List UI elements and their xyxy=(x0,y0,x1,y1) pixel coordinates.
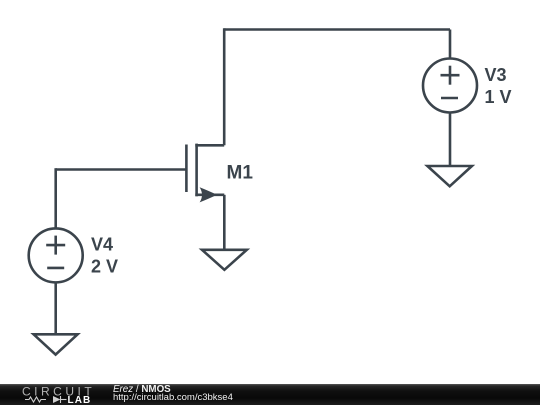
svg-text:V4: V4 xyxy=(91,234,113,254)
footer bar xyxy=(0,384,540,405)
svg-text:2 V: 2 V xyxy=(91,257,118,277)
wire V3 top lead xyxy=(449,30,452,59)
footer url xyxy=(113,393,233,403)
svg-text:LAB: LAB xyxy=(68,395,92,405)
voltage source V3 xyxy=(423,59,477,113)
ground below M1 source xyxy=(202,250,247,270)
footer title Erez / NMOS xyxy=(113,385,171,395)
wire V4 top lead xyxy=(54,168,57,228)
voltage source V4 xyxy=(29,228,83,282)
wire gate horizontal (V4 to M1 gate) xyxy=(56,168,187,171)
wire source vertical (M1 source to ground) xyxy=(223,195,226,249)
ground below V3 xyxy=(427,166,472,186)
logo resistor + diode symbol xyxy=(25,396,67,403)
wire top horizontal rail xyxy=(224,28,450,31)
svg-text:V3: V3 xyxy=(485,65,507,85)
svg-text:1 V: 1 V xyxy=(485,87,512,107)
svg-text:M1: M1 xyxy=(227,162,254,183)
wire V3 bottom lead xyxy=(449,113,452,166)
CircuitLab logo xyxy=(0,384,110,405)
ground below V4 xyxy=(34,334,78,354)
transistor M1 xyxy=(186,144,224,203)
wire V4 bottom lead xyxy=(54,282,57,333)
wire drain vertical (top rail to M1 drain) xyxy=(223,28,226,145)
